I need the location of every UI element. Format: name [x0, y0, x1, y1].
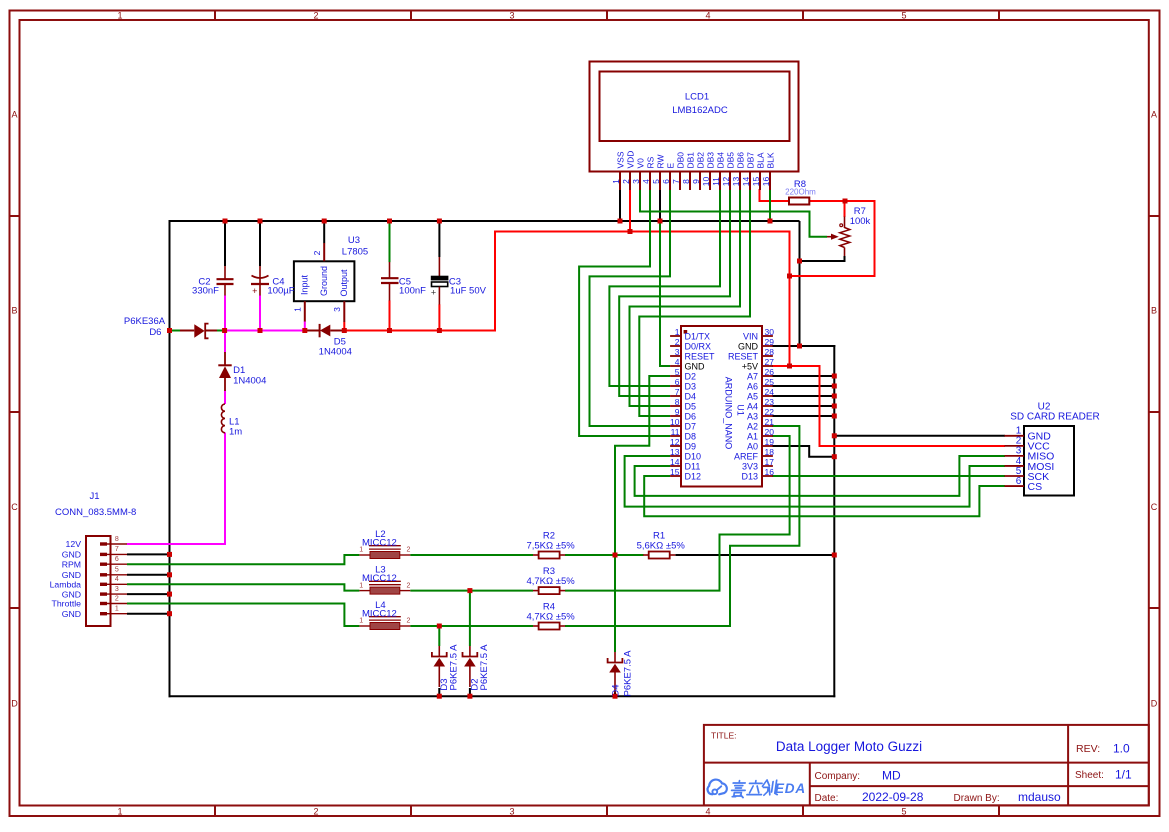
resistor R4 4,7KΩ ±5% — [526, 602, 575, 630]
U1 left pin 3 RESET — [670, 347, 715, 362]
junction — [658, 219, 663, 224]
svg-text:1: 1 — [359, 618, 363, 625]
junction — [167, 592, 172, 597]
svg-text:19: 19 — [765, 437, 775, 447]
svg-text:D3: D3 — [685, 381, 697, 391]
svg-text:DB2: DB2 — [696, 152, 706, 169]
svg-text:E: E — [666, 163, 676, 169]
junction — [797, 344, 802, 349]
svg-text:20: 20 — [765, 427, 775, 437]
junction — [322, 219, 327, 224]
U1 right pin 24 A5 — [747, 387, 774, 402]
junction — [167, 552, 172, 557]
svg-text:RW: RW — [656, 154, 666, 168]
wire LCD RW to GND bus — [659, 189, 661, 221]
wire Arduino D10 to SD MOSI — [625, 456, 1005, 507]
svg-text:1N4004: 1N4004 — [319, 346, 352, 357]
junction — [342, 328, 347, 333]
svg-text:10: 10 — [701, 177, 711, 187]
U2 pin 2 VCC — [1005, 436, 1051, 453]
U1 right pin 19 A0 — [747, 437, 774, 452]
svg-text:TITLE:: TITLE: — [711, 731, 737, 741]
svg-text:A: A — [11, 109, 17, 119]
U1 left pin 12 D9 — [670, 437, 696, 452]
junction — [258, 328, 263, 333]
U2 pin 5 SCK — [1005, 466, 1050, 483]
wire LCD RS to Arduino D8 — [579, 189, 670, 436]
svg-text:16: 16 — [765, 467, 775, 477]
junction — [618, 219, 623, 224]
svg-text:D13: D13 — [741, 471, 758, 481]
wire node to D4 — [614, 555, 616, 652]
junction — [613, 553, 618, 558]
wire A7 to GND — [772, 375, 834, 377]
svg-text:25: 25 — [765, 377, 775, 387]
J1 pin 5 GND — [62, 567, 127, 580]
diode D2 P6KE7.5A TVS — [463, 644, 490, 691]
U1 left pin 11 D8 — [670, 427, 696, 442]
svg-text:J1: J1 — [89, 491, 99, 502]
U1 left pin 4 GND — [670, 357, 705, 372]
inductor L3 MICC12 — [359, 565, 410, 595]
svg-text:U1: U1 — [736, 404, 746, 416]
svg-text:1: 1 — [293, 307, 303, 312]
svg-text:BLK: BLK — [766, 152, 776, 168]
svg-text:7: 7 — [115, 546, 119, 553]
U1 right pin 25 A6 — [747, 377, 774, 392]
svg-text:V0: V0 — [636, 158, 646, 169]
U1 left pin 5 D2 — [670, 367, 696, 382]
resistor R3 4,7KΩ ±5% — [526, 566, 575, 594]
junction — [832, 433, 837, 438]
J1 pin 7 GND — [62, 546, 127, 559]
inductor L4 MICC12 — [359, 600, 410, 630]
U2 pin 4 MOSI — [1005, 456, 1055, 473]
svg-text:5: 5 — [901, 10, 906, 20]
svg-text:D1: D1 — [233, 365, 245, 376]
svg-text:DB4: DB4 — [716, 152, 726, 169]
resistor R1 5,6KΩ ±5% — [637, 531, 686, 559]
svg-text:1: 1 — [359, 547, 363, 554]
svg-text:3: 3 — [631, 179, 641, 184]
svg-text:7: 7 — [675, 387, 680, 397]
svg-text:D6: D6 — [685, 411, 697, 421]
svg-text:8: 8 — [675, 397, 680, 407]
svg-text:A3: A3 — [747, 411, 758, 421]
junction — [467, 694, 472, 699]
wire L2 to R2 — [410, 554, 533, 556]
svg-text:2: 2 — [115, 595, 119, 602]
svg-text:1/1: 1/1 — [1115, 768, 1132, 782]
junction — [787, 274, 792, 279]
svg-text:Ground: Ground — [319, 266, 329, 296]
wire J1 pin3 GND — [127, 593, 170, 595]
LCD LCD1 LMB162ADC — [590, 62, 799, 191]
junction — [258, 219, 263, 224]
wire A4 to GND — [772, 405, 834, 407]
wire U3 output pin red — [343, 322, 345, 331]
svg-text:A7: A7 — [747, 371, 758, 381]
svg-text:4: 4 — [705, 10, 710, 20]
svg-text:D: D — [1151, 698, 1158, 708]
svg-text:+: + — [252, 286, 257, 296]
LCD1 pin 8 DB1 — [681, 152, 696, 190]
wire U3 input pin magenta — [304, 321, 306, 330]
svg-text:B: B — [1151, 306, 1157, 316]
junction — [832, 384, 837, 389]
svg-text:1: 1 — [675, 327, 680, 337]
svg-text:6: 6 — [1016, 476, 1022, 487]
svg-text:A1: A1 — [747, 431, 758, 441]
svg-text:D10: D10 — [685, 451, 702, 461]
junction — [628, 229, 633, 234]
svg-text:GND: GND — [738, 341, 759, 351]
svg-text:11: 11 — [671, 427, 680, 437]
wire C2 top to GND bus — [224, 221, 226, 266]
svg-text:Drawn By:: Drawn By: — [954, 793, 1000, 804]
svg-text:13: 13 — [670, 447, 680, 457]
svg-text:A: A — [1151, 109, 1157, 119]
resistor R2 7,5KΩ ±5% — [526, 531, 575, 559]
wire Lambda J1 pin4 to L3 — [127, 584, 359, 590]
svg-text:100k: 100k — [850, 216, 871, 227]
diode D3 P6KE7.5A TVS — [432, 644, 459, 691]
LCD1 pin 2 VDD — [621, 151, 636, 190]
J1 pin 3 GND — [62, 586, 127, 599]
svg-text:29: 29 — [765, 337, 775, 347]
junction — [467, 588, 472, 593]
junction — [832, 404, 837, 409]
LCD1 pin 1 VSS — [611, 151, 626, 190]
svg-text:6: 6 — [675, 377, 680, 387]
svg-text:C: C — [11, 502, 18, 512]
svg-text:2: 2 — [675, 337, 680, 347]
LCD1 pin 7 DB0 — [671, 152, 686, 190]
svg-text:6: 6 — [661, 179, 671, 184]
svg-text:3: 3 — [675, 347, 680, 357]
svg-text:4: 4 — [115, 576, 119, 583]
svg-text:17: 17 — [765, 457, 775, 467]
wire A0 to GND — [772, 446, 834, 457]
wire node to D3 TVS — [438, 626, 440, 646]
svg-text:21: 21 — [765, 417, 775, 427]
junction — [387, 219, 392, 224]
svg-text:30: 30 — [765, 327, 775, 337]
wire LCD VDD to +5V rail — [629, 189, 631, 232]
svg-text:1N4004: 1N4004 — [233, 376, 266, 387]
junction — [437, 624, 442, 629]
LCD1 pin 10 DB3 — [701, 152, 716, 190]
svg-text:24: 24 — [765, 387, 775, 397]
svg-text:LCD1: LCD1 — [685, 92, 709, 103]
wire LCD VSS to GND bus — [619, 189, 621, 221]
wire pot bottom to GND — [800, 256, 845, 261]
svg-text:1: 1 — [117, 807, 122, 817]
wire GND from bus down to Arduino pin29 — [799, 221, 801, 347]
U1 left pin 6 D3 — [670, 377, 696, 392]
svg-text:3V3: 3V3 — [742, 461, 758, 471]
U3 pin 1 Input stub — [304, 301, 306, 321]
R7 wiper arrow — [827, 236, 832, 238]
svg-text:GND: GND — [62, 609, 81, 619]
svg-text:2: 2 — [621, 179, 631, 184]
wire J1 pin7 GND — [127, 553, 170, 555]
LCD1 pin 14 DB7 — [741, 152, 756, 190]
wire R4 to Arduino A2 — [565, 426, 799, 626]
junction — [832, 414, 837, 419]
wire C2 bottom magenta — [224, 295, 226, 330]
wire Arduino D11 to SD MISO — [635, 456, 1005, 496]
J1 pin 6 RPM — [62, 556, 127, 569]
wire +5V rail from regulator output — [344, 232, 789, 367]
diode D5 1N4004 — [305, 324, 352, 358]
diode D1 1N4004 — [218, 352, 266, 391]
svg-text:RESET: RESET — [728, 351, 759, 361]
svg-text:12: 12 — [670, 437, 680, 447]
U1 right pin 30 VIN — [743, 327, 774, 342]
svg-text:GND: GND — [62, 570, 81, 580]
U1 left pin 10 D7 — [670, 417, 696, 432]
wire C3 top to GND bus — [438, 221, 440, 257]
svg-text:Company:: Company: — [815, 771, 861, 782]
wire LCD DB7 to Arduino D6 — [639, 189, 750, 416]
wire D1 to L1 — [224, 391, 226, 405]
wire D6 anode to GND vertical — [170, 330, 181, 332]
svg-text:L7805: L7805 — [342, 247, 368, 258]
svg-text:100nF: 100nF — [399, 286, 426, 297]
svg-text:mdauso: mdauso — [1018, 790, 1061, 804]
capacitor C3 1uF 50V polarized — [431, 257, 487, 305]
wire A3 to GND — [772, 415, 834, 417]
svg-text:7,5KΩ ±5%: 7,5KΩ ±5% — [526, 540, 575, 551]
svg-text:2: 2 — [407, 582, 411, 589]
wire R8 to R7 loop — [790, 201, 875, 276]
svg-text:14: 14 — [670, 457, 680, 467]
svg-text:15: 15 — [751, 177, 761, 187]
svg-text:1: 1 — [115, 606, 119, 613]
U3 pin 2 Ground stub — [323, 243, 325, 261]
U1 left pin 1 D1/TX — [670, 327, 710, 342]
svg-text:2: 2 — [407, 618, 411, 625]
svg-text:23: 23 — [765, 397, 775, 407]
svg-text:16: 16 — [761, 177, 771, 187]
svg-text:AREF: AREF — [734, 451, 759, 461]
svg-text:Lambda: Lambda — [50, 580, 82, 590]
svg-text:EDA: EDA — [775, 781, 806, 796]
U1 right pin 20 A1 — [747, 427, 774, 442]
svg-text:100µF: 100µF — [267, 286, 294, 297]
resistor R8 220Ohm — [785, 179, 816, 205]
svg-text:RS: RS — [646, 156, 656, 168]
svg-text:GND: GND — [62, 550, 81, 560]
wire 12V junction to D1 — [224, 331, 226, 353]
capacitor C4 100uF polarized — [251, 266, 295, 297]
svg-text:DB1: DB1 — [686, 152, 696, 169]
wire GND bus top — [170, 220, 800, 222]
svg-text:6: 6 — [115, 556, 119, 563]
svg-text:4,7KΩ ±5%: 4,7KΩ ±5% — [526, 576, 575, 587]
svg-text:GND: GND — [62, 589, 81, 599]
svg-text:LMB162ADC: LMB162ADC — [672, 105, 728, 116]
J1 pin 8 12V — [66, 536, 127, 549]
wire LCD V0 to pot wiper — [640, 189, 827, 237]
svg-text:DB3: DB3 — [706, 152, 716, 169]
junction — [223, 219, 228, 224]
svg-text:SD CARD READER: SD CARD READER — [1010, 412, 1099, 423]
wire R3 to Arduino A1 — [565, 436, 790, 591]
LCD1 pin 5 RW — [651, 154, 666, 190]
U1 right pin 17 3V3 — [742, 457, 774, 472]
LCD1 pin 15 BLA — [751, 152, 766, 190]
svg-text:MICC12: MICC12 — [362, 609, 397, 620]
J1 pin 4 Lambda — [50, 576, 127, 589]
diode D4 P6KE7.5A TVS — [608, 650, 634, 697]
svg-text:8: 8 — [681, 179, 691, 184]
svg-text:5: 5 — [115, 567, 119, 574]
svg-text:27: 27 — [765, 357, 775, 367]
svg-text:U3: U3 — [348, 235, 360, 246]
wire GND bottom bus — [169, 695, 836, 697]
svg-text:12: 12 — [721, 177, 731, 187]
svg-text:Input: Input — [300, 274, 310, 295]
U3 pin 3 Output stub — [343, 301, 345, 322]
junction — [613, 694, 618, 699]
junction — [787, 364, 792, 369]
wire Arduino D12 to SD CS — [644, 476, 1005, 516]
wire A6 to GND — [772, 385, 834, 387]
wire LCD DB4 to Arduino D3 — [609, 189, 720, 386]
svg-text:9: 9 — [675, 407, 680, 417]
svg-text:26: 26 — [765, 367, 775, 377]
U1 right pin 29 GND — [738, 337, 774, 352]
wire R2 to R1/D4/D2 node — [565, 554, 644, 556]
wire L3 to R3 — [410, 590, 533, 592]
junction — [167, 328, 172, 333]
svg-text:3: 3 — [332, 307, 342, 312]
wire Throttle J1 pin2 to L4 — [127, 604, 359, 627]
svg-text:MICC12: MICC12 — [362, 573, 397, 584]
svg-text:A6: A6 — [747, 381, 758, 391]
wire C5 top green — [389, 221, 391, 262]
svg-text:330nF: 330nF — [192, 286, 219, 297]
potentiometer R7 100k — [827, 206, 871, 256]
wire +5V to Arduino pin27 — [772, 365, 790, 367]
LCD1 pin 12 DB5 — [721, 152, 736, 190]
LCD1 pin 3 V0 — [631, 158, 646, 190]
svg-text:1m: 1m — [229, 427, 242, 438]
svg-text:D6: D6 — [149, 327, 161, 338]
svg-text:CONN_083.5MM-8: CONN_083.5MM-8 — [55, 507, 136, 518]
connector J1 CONN_083.5MM-8 — [50, 491, 137, 626]
U2 pin 3 MISO — [1005, 446, 1055, 463]
svg-text:1.0: 1.0 — [1113, 742, 1130, 756]
J1 pin 1 GND — [62, 606, 127, 619]
wire LCD DB6 to Arduino D5 — [630, 189, 741, 406]
wire C4 bottom magenta — [259, 295, 261, 330]
wire R1 right to GND — [675, 554, 834, 556]
svg-text:ARDUINO_NANO: ARDUINO_NANO — [724, 377, 734, 450]
svg-text:RESET: RESET — [685, 351, 716, 361]
wire LCD E to Arduino D7 — [590, 189, 671, 426]
svg-text:5,6KΩ ±5%: 5,6KΩ ±5% — [637, 540, 686, 551]
svg-text:REV:: REV: — [1076, 743, 1100, 755]
U1 right pin 18 AREF — [734, 447, 774, 462]
svg-text:2: 2 — [313, 807, 318, 817]
svg-text:1: 1 — [117, 10, 122, 20]
svg-text:D9: D9 — [685, 441, 697, 451]
wire SD GND to GND vertical — [834, 435, 1005, 437]
svg-text:11: 11 — [711, 177, 721, 186]
svg-text:VIN: VIN — [743, 331, 758, 341]
wire D6 cathode short green — [217, 330, 225, 332]
LCD1 pin 13 DB6 — [731, 152, 746, 190]
svg-text:A5: A5 — [747, 391, 758, 401]
svg-text:D1/TX: D1/TX — [685, 331, 711, 341]
wire LCD DB5 to Arduino D4 — [619, 189, 730, 396]
junction — [437, 219, 442, 224]
svg-text:5: 5 — [651, 179, 661, 184]
svg-text:1: 1 — [359, 582, 363, 589]
svg-text:B: B — [11, 306, 17, 316]
inductor L2 MICC12 — [359, 529, 410, 559]
svg-text:4: 4 — [675, 357, 680, 367]
LCD1 pin 9 DB2 — [691, 152, 706, 190]
svg-text:Date:: Date: — [815, 793, 839, 804]
capacitor C5 100nF — [381, 262, 426, 301]
svg-text:DB0: DB0 — [676, 152, 686, 169]
wire Arduino D13 to SD SCK — [772, 475, 1005, 477]
svg-text:A0: A0 — [747, 441, 758, 451]
svg-text:RPM: RPM — [62, 559, 81, 569]
svg-text:18: 18 — [765, 447, 775, 457]
svg-text:CS: CS — [1028, 481, 1043, 493]
svg-text:2: 2 — [312, 250, 322, 255]
U1 right pin 26 A7 — [747, 367, 774, 382]
U1 left pin 9 D6 — [670, 407, 696, 422]
svg-text:12V: 12V — [66, 539, 82, 549]
wire GND left vertical — [169, 220, 171, 697]
U1 right pin 21 A2 — [747, 417, 774, 432]
wire A5 to GND — [772, 395, 834, 397]
junction — [832, 454, 837, 459]
U1 right pin 23 A4 — [747, 397, 774, 412]
svg-text:3: 3 — [509, 807, 514, 817]
svg-text:DB7: DB7 — [746, 152, 756, 169]
svg-text:Throttle: Throttle — [52, 599, 82, 609]
svg-text:DB6: DB6 — [736, 152, 746, 169]
svg-text:VDD: VDD — [626, 151, 636, 169]
svg-text:Output: Output — [339, 269, 349, 297]
svg-text:220Ohm: 220Ohm — [785, 188, 816, 197]
wire D2 cathode to GND bus — [469, 688, 471, 696]
junction — [167, 611, 172, 616]
wire J1 pin5 GND — [127, 574, 170, 576]
wire U3 ground pin to GND bus — [323, 221, 325, 243]
wire L1 to J1 pin8 — [127, 433, 225, 545]
svg-text:15: 15 — [670, 467, 680, 477]
SD card reader U2 — [1005, 402, 1100, 496]
svg-text:2: 2 — [313, 10, 318, 20]
junction — [768, 219, 773, 224]
wire 12V rail — [225, 330, 305, 332]
svg-text:8: 8 — [115, 536, 119, 543]
svg-text:10: 10 — [670, 417, 680, 427]
LCD1 pin 6 E — [661, 163, 676, 191]
svg-text:1: 1 — [611, 179, 621, 184]
svg-text:P6KE36A: P6KE36A — [124, 316, 166, 327]
svg-text:1uF 50V: 1uF 50V — [450, 286, 487, 297]
J1 pin 2 Throttle — [52, 595, 127, 608]
